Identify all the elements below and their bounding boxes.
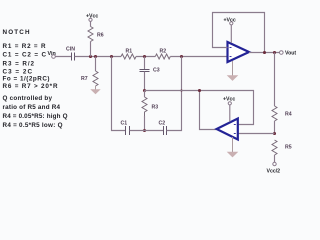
power +Vcc (U2) [223, 96, 235, 122]
node Vin terminal [48, 51, 56, 58]
wire U1 output to Vout [249, 52, 280, 54]
ground (below U1) [227, 61, 239, 81]
svg-text:NOTCH: NOTCH [3, 29, 30, 36]
resistor R3 [142, 97, 158, 116]
power +Vcc (R6 top) [86, 13, 98, 21]
node junction C3 [143, 55, 146, 58]
power +Vcc (U1) [224, 17, 236, 43]
node junction R4/R5 [273, 132, 276, 135]
node Vcc/2 terminal [267, 162, 281, 174]
svg-text:C3: C3 [153, 68, 160, 74]
node junction C2 drop [180, 55, 183, 58]
svg-text:Vout: Vout [285, 51, 296, 57]
resistor R6 [88, 27, 104, 42]
node crossing dot at bootstrap [180, 89, 182, 91]
svg-text:R1: R1 [126, 49, 133, 55]
node junction divider [273, 51, 276, 54]
svg-text:Q controlled by: Q controlled by [3, 95, 53, 102]
node junction feedback [263, 51, 266, 54]
svg-text:C2: C2 [159, 121, 166, 127]
svg-text:Vcc/2: Vcc/2 [267, 169, 281, 175]
wire R3 bottom to rail [144, 116, 146, 131]
node junction C1 drop [110, 55, 113, 58]
wire C1 to C2 [130, 130, 164, 132]
wire R3 top stub [144, 91, 146, 98]
wire R5 to Vcc/2 [274, 155, 276, 162]
capacitor C3 [140, 68, 160, 74]
resistor R2 [155, 49, 170, 60]
wire bootstrap line C3/R3 node to U2 [145, 91, 254, 125]
svg-text:R3: R3 [152, 105, 159, 111]
svg-text:R4 = 0.5*R5 low: Q: R4 = 0.5*R5 low: Q [3, 122, 63, 129]
svg-text:R6 = R7 > 20*R: R6 = R7 > 20*R [3, 83, 58, 90]
ground (below R7) [90, 86, 100, 94]
svg-text:R5: R5 [285, 145, 292, 151]
resistor R1 [121, 49, 136, 60]
svg-text:ratio of R5 and R4: ratio of R5 and R4 [3, 104, 61, 111]
ground (below U2) [227, 137, 239, 157]
op-amp U1 [228, 42, 250, 62]
wire C3 column top [144, 57, 146, 70]
wire R2 to op-amp U1 + input [170, 56, 227, 58]
resistor R7 [81, 71, 98, 86]
wire +Vcc to R6 [90, 21, 92, 26]
wire R1 to R2 [136, 56, 155, 58]
wire drop from main line to C1 rail [112, 57, 126, 131]
svg-text:C1 = C2 = C: C1 = C2 = C [3, 52, 47, 59]
svg-text:C3 = 2C: C3 = 2C [3, 68, 33, 75]
svg-text:CIN: CIN [66, 47, 75, 53]
svg-text:R4 = 0.05*R5: high Q: R4 = 0.05*R5: high Q [3, 113, 68, 120]
capacitor C1 [121, 121, 130, 136]
wire R4 to junction [274, 121, 276, 134]
wire Vout node down to R4 [274, 53, 276, 107]
svg-text:R6: R6 [97, 33, 104, 39]
resistor R5 [272, 140, 292, 155]
resistor R4 [272, 106, 292, 121]
node junction R7 [94, 55, 97, 58]
node junction R3/rail [143, 129, 146, 132]
wire C2 to right rail corner and up to main line [167, 57, 182, 131]
svg-text:Fo = 1/(2pRC): Fo = 1/(2pRC) [3, 76, 50, 83]
svg-text:R1 = R2 = R: R1 = R2 = R [3, 43, 46, 50]
wire junction to U2 + input [238, 133, 275, 135]
op-amp U2 [217, 119, 238, 140]
svg-text:R4: R4 [285, 112, 292, 118]
wire Vin to CIN [55, 56, 71, 58]
notes text block [3, 29, 68, 129]
svg-text:R7: R7 [81, 76, 88, 82]
svg-text:R3 = R/2: R3 = R/2 [3, 60, 35, 67]
capacitor CIN [66, 47, 75, 61]
capacitor C2 [159, 121, 167, 136]
svg-text:C1: C1 [121, 121, 128, 127]
wire C3 to bootstrap node [144, 72, 146, 91]
svg-text:R2: R2 [160, 49, 167, 55]
node Vout terminal [280, 51, 297, 57]
node junction bootstrap/U2 output [198, 89, 201, 92]
node junction C3/R3 bootstrap [143, 89, 146, 92]
wire U1 feedback (output to - input) [213, 13, 265, 53]
wire CIN to R1 (main line left) [75, 56, 122, 58]
wire main line to R7 [95, 57, 97, 72]
wire R6 to main line [90, 42, 92, 57]
node junction R6 [89, 55, 92, 58]
wire U2 output loop [200, 91, 217, 130]
svg-text:+Vcc: +Vcc [86, 13, 98, 19]
